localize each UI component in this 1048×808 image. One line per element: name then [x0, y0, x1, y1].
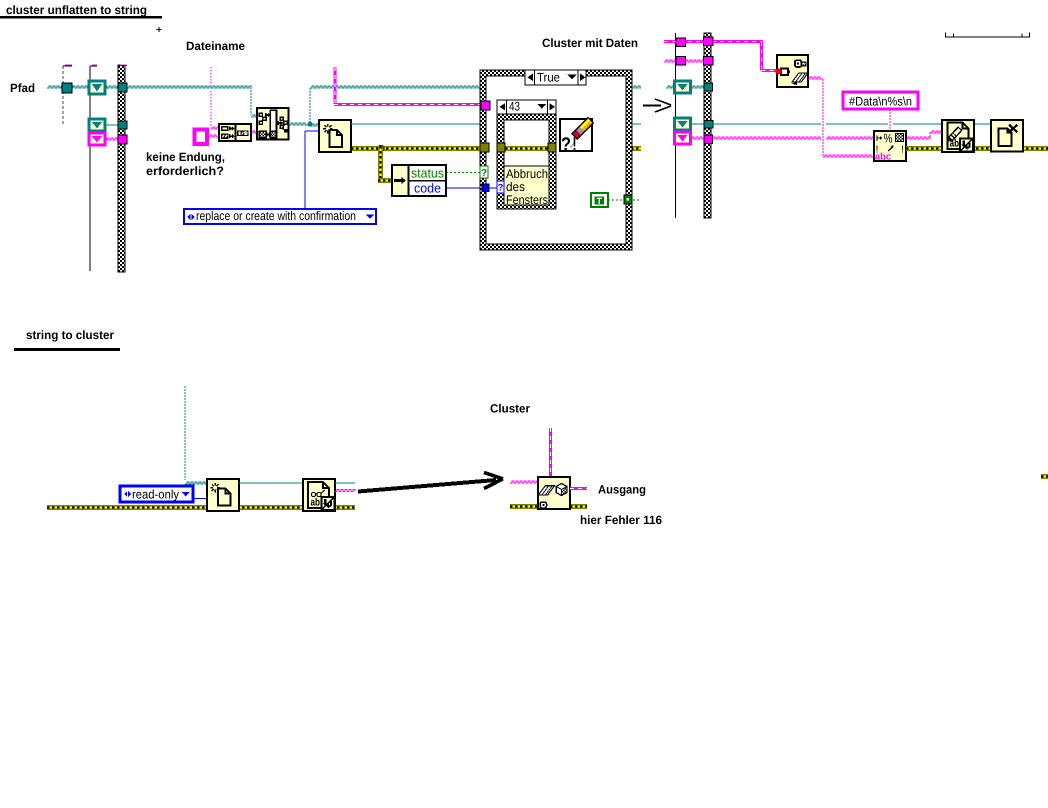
wire: enum function select (blue): [305, 130, 319, 132]
wire: boolean to tunnel (green dotted): [608, 199, 624, 201]
svg-text:Cluster: Cluster: [490, 402, 530, 416]
constant: #Data\n%s\n string: [843, 92, 918, 109]
svg-text:%: %: [884, 132, 893, 146]
svg-text:?: ?: [561, 135, 571, 156]
coercion dot (red): [775, 68, 781, 74]
svg-text:replace or create with confirm: replace or create with confirmation: [196, 209, 356, 223]
structure: case (True) outer frame: [480, 70, 632, 250]
wire: path along y=86 into case: [310, 86, 481, 88]
svg-text:code: code: [414, 181, 441, 196]
wire: code int (blue): [446, 187, 481, 189]
svg-text:ab: ab: [311, 497, 321, 509]
sketch: big arrow: [358, 480, 496, 492]
tunnels: error on inner case borders: [497, 143, 505, 152]
wire: flattened data (thick magenta) into case: [333, 67, 336, 104]
wire: path stubs right of case: [632, 86, 641, 88]
svg-text:string to cluster: string to cluster: [26, 328, 114, 342]
svg-text:#Data\n%s\n: #Data\n%s\n: [849, 95, 912, 109]
wire: cluster out (thick magenta): [570, 487, 587, 490]
selector label 43: [497, 100, 556, 114]
wire: refnum between VIs: [239, 482, 303, 484]
svg-text:43: 43: [509, 100, 520, 114]
wire: refnum long run: [712, 123, 821, 125]
cluster: unbundle error (status/code): [392, 165, 446, 196]
wire: error bottom run: [47, 505, 355, 510]
cursor plus mark: [157, 29, 162, 31]
wire: error cluster main run: [351, 146, 641, 151]
right hatched structure border: [704, 33, 711, 218]
VI: read characters from file: [303, 479, 335, 511]
VI: unflatten from string: [538, 477, 570, 509]
tunnel: error in: [480, 143, 489, 152]
svg-text:Dateiname: Dateiname: [186, 39, 245, 53]
svg-text:abc: abc: [875, 152, 891, 163]
terminal: case selector ? (blue): [497, 181, 504, 193]
VI: clear errors (?! eraser): [560, 119, 592, 151]
VI: open/create/replace file (bottom): [207, 479, 239, 511]
svg-text:des: des: [506, 180, 525, 194]
VI: close file: [991, 120, 1023, 152]
tunnel: teal triangle on black rail: [89, 81, 105, 94]
VI: write characters to file: [942, 120, 974, 152]
enum constant: read-only: [120, 486, 193, 502]
wire: error into unflatten: [510, 504, 587, 509]
svg-text:!: !: [901, 145, 904, 156]
sketch: cut-off box top right: [945, 36, 1030, 38]
svg-text:Fensters: Fensters: [506, 193, 548, 207]
selector label True: [525, 70, 586, 85]
left dashed rail: [62, 66, 64, 125]
wire: path out of flatten icon: [289, 123, 308, 125]
left hatched structure border: [118, 65, 125, 272]
constant: TRUE boolean: [591, 193, 608, 207]
wire: status boolean (green dotted): [446, 172, 480, 174]
svg-text:read-only: read-only: [132, 488, 180, 502]
svg-text:Pfad: Pfad: [10, 81, 35, 95]
control terminal: string (magenta open square): [195, 130, 208, 145]
svg-text:status: status: [411, 166, 444, 181]
svg-text:hier Fehler 116: hier Fehler 116: [580, 513, 662, 527]
wire: stubs out of read VI: [335, 482, 355, 484]
wire: dup refnum out (solid teal): [351, 123, 481, 125]
svg-text:T: T: [596, 196, 602, 206]
tunnel: boolean out (green square): [624, 195, 632, 204]
svg-text:cluster unflatten to string: cluster unflatten to string: [6, 3, 147, 17]
VI: flatten to string: [777, 55, 808, 87]
svg-text:keine Endung,: keine Endung,: [146, 150, 225, 164]
svg-text:ab: ab: [950, 138, 960, 150]
wire: Pfad path (teal zigzag): [47, 86, 251, 88]
left black rail: [89, 66, 91, 271]
terminal: teal square on dashed rail: [62, 83, 72, 93]
svg-text:erforderlich?: erforderlich?: [146, 164, 224, 178]
error junction dot: [378, 145, 384, 151]
wire: cluster data (thick magenta) top: [664, 40, 763, 43]
svg-text:True: True: [537, 71, 560, 85]
wire: flattened string out + down: [808, 77, 823, 79]
icon: flatten/convert (scatter-bar-scatter): [257, 108, 289, 140]
right black rail: [675, 33, 677, 218]
wire+tunnels: magenta row2: [664, 60, 704, 62]
icon: path/string helper (two-cell): [219, 124, 251, 141]
tunnel: magenta (flattened data): [481, 101, 490, 110]
svg-text:Cluster mit Daten: Cluster mit Daten: [542, 36, 638, 50]
free label: Abbruch des Fensters: [504, 166, 549, 205]
wire: string into unflatten: [510, 481, 538, 483]
svg-text:Ausgang: Ausgang: [598, 483, 646, 497]
VI: open/create/replace file: [319, 120, 351, 152]
tunnel: int code in (blue): [482, 184, 489, 192]
junction dot: [308, 122, 313, 127]
wire: string long run (zigzag): [712, 137, 821, 139]
tunnels: magenta triangle + square (string row): [690, 137, 704, 139]
wire: cluster (thick magenta) down to unflatten: [549, 428, 552, 477]
enum constant: replace or create with confirmation: [184, 209, 376, 224]
structure: inner case (43) frame: [497, 108, 556, 209]
tunnel: teal triangle row2 + refnum wire: [105, 124, 118, 126]
wire: Dateiname string (dotted vertical): [210, 67, 212, 84]
svg-text:?: ?: [481, 168, 487, 179]
VI: format into string: [874, 131, 906, 161]
wire: result string out, step up to write VI: [906, 137, 930, 139]
wire: refnum stub right of case: [632, 123, 641, 125]
tunnel: teal square on hatch: [118, 83, 127, 92]
tunnel: boolean ? out: [480, 166, 488, 178]
tunnels: teal triangle + square (refnum row): [690, 123, 704, 125]
tunnels: teal triangle + square (path row): [675, 81, 691, 93]
tunnel: magenta triangle row3 + string wire: [105, 138, 118, 140]
svg-text:Abbruch: Abbruch: [506, 167, 548, 181]
svg-text:!: !: [573, 135, 577, 156]
wire: error stub at right edge: [1041, 474, 1048, 479]
svg-text:?: ?: [498, 182, 504, 193]
tunnels: magenta squares on right rails (row1): [676, 38, 686, 47]
sketch: small arrow: [643, 105, 661, 107]
wire: path into open VI (bottom): [184, 386, 186, 480]
wire: error right section: [906, 146, 1048, 151]
wire: error through inner case: [505, 146, 548, 151]
